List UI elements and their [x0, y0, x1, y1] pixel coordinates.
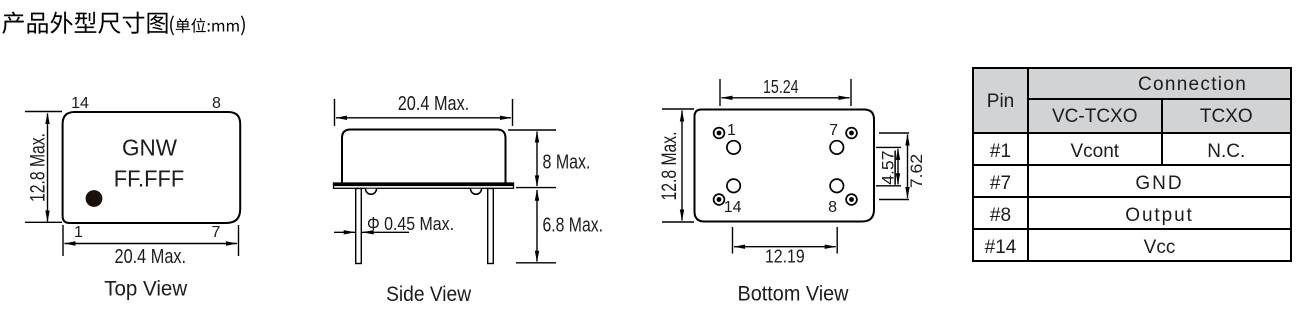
- dimension phi 0.45 Max.: left arrow: [334, 231, 355, 233]
- svg-text:14: 14: [71, 95, 89, 112]
- dimension 12.8 Max. (top view): arrow line: [47, 114, 49, 222]
- dimension 15.24: extension ticks: [719, 79, 721, 106]
- bottom view pin 14 hole (circle with center dot): [714, 194, 725, 205]
- svg-text:15.24: 15.24: [763, 76, 799, 97]
- bottom view pin 7 hole (circle with center dot): [846, 128, 857, 139]
- bottom view pin 7 lead circle: [830, 141, 843, 154]
- svg-text:6.8 Max.: 6.8 Max.: [543, 214, 604, 237]
- svg-text:1: 1: [727, 122, 736, 139]
- side view base plate: [334, 183, 514, 188]
- dimension 7.62: arrow line: [907, 135, 909, 199]
- bottom view pin 8 hole (circle with center dot): [846, 194, 857, 205]
- dimension 4.57: arrow line: [897, 149, 899, 184]
- dimension 8 Max.: top extension tick: [508, 129, 556, 131]
- svg-text:12.8 Max.: 12.8 Max.: [657, 132, 681, 201]
- svg-text:Top View: Top View: [104, 278, 188, 301]
- svg-text:4.57: 4.57: [878, 150, 897, 184]
- dimension 12.8 Max. (top view left): extension ticks: [25, 111, 62, 113]
- dimension 8 Max.: arrow line: [536, 132, 538, 187]
- dimension phi 0.45 Max.: leader line with arrow: [362, 231, 409, 233]
- svg-text:7: 7: [829, 122, 838, 139]
- dimension 4.57: extension ticks: [876, 146, 901, 148]
- svg-text:Φ 0.45 Max.: Φ 0.45 Max.: [367, 214, 454, 234]
- bottom view pin 1 lead circle: [727, 141, 740, 154]
- svg-text:FF.FFF: FF.FFF: [114, 166, 185, 192]
- pin connection table: [972, 67, 1292, 262]
- side view left pin: [356, 189, 362, 264]
- svg-text:8: 8: [828, 199, 837, 216]
- svg-text:20.4 Max.: 20.4 Max.: [115, 245, 187, 268]
- dimension 15.24: arrow line: [722, 97, 850, 99]
- svg-text:GNW: GNW: [122, 135, 177, 161]
- dimension 6.8 Max.: bottom extension tick: [516, 262, 556, 264]
- svg-text:1: 1: [74, 224, 83, 241]
- svg-text:8: 8: [212, 95, 221, 112]
- svg-text:8 Max.: 8 Max.: [543, 151, 591, 174]
- svg-text:20.4 Max.: 20.4 Max.: [398, 92, 470, 115]
- dimension 12.19: extension ticks: [732, 227, 734, 254]
- svg-text:12.8 Max.: 12.8 Max.: [26, 133, 50, 202]
- side view right pin: [488, 189, 494, 264]
- dimension 8 Max.: mid extension tick: [516, 187, 556, 189]
- svg-text:Side View: Side View: [386, 283, 472, 306]
- dimension 6.8 Max.: arrow line: [536, 190, 538, 262]
- dimension 20.4 Max. (side view): extension ticks: [334, 99, 336, 126]
- dimension 20.4 Max. (top view bottom): extension ticks: [62, 225, 64, 256]
- title: product outline dimension drawing (Chinese): [0, 0, 300, 45]
- bottom view pin 1 hole (circle with center dot): [714, 128, 725, 139]
- top view: package body outline: [63, 112, 241, 223]
- bottom view pin 8 lead circle: [830, 179, 843, 192]
- bottom view pin 14 lead circle: [727, 179, 740, 192]
- dimension 7.62: extension ticks: [879, 132, 909, 134]
- side view right pin seal semicircle: [471, 189, 482, 195]
- top view pin1 index dot: [86, 190, 103, 207]
- side view left pin seal semicircle: [366, 189, 377, 195]
- svg-text:7.62: 7.62: [907, 154, 926, 188]
- dimension 12.8 Max. (bottom view): arrow line: [681, 111, 683, 221]
- dimension 20.4 Max. (top view): arrow line: [65, 243, 238, 245]
- dimension 20.4 Max. (side view): arrow line: [336, 117, 511, 119]
- dimension 12.8 Max. (bottom view left): extension ticks: [662, 108, 694, 110]
- dimension 12.19: arrow line: [734, 246, 836, 248]
- side view case body: [342, 130, 506, 184]
- bottom view: package body outline: [695, 110, 875, 222]
- svg-text:Bottom View: Bottom View: [738, 283, 850, 306]
- svg-text:14: 14: [724, 199, 742, 216]
- svg-text:12.19: 12.19: [765, 246, 805, 267]
- svg-text:7: 7: [212, 224, 221, 241]
